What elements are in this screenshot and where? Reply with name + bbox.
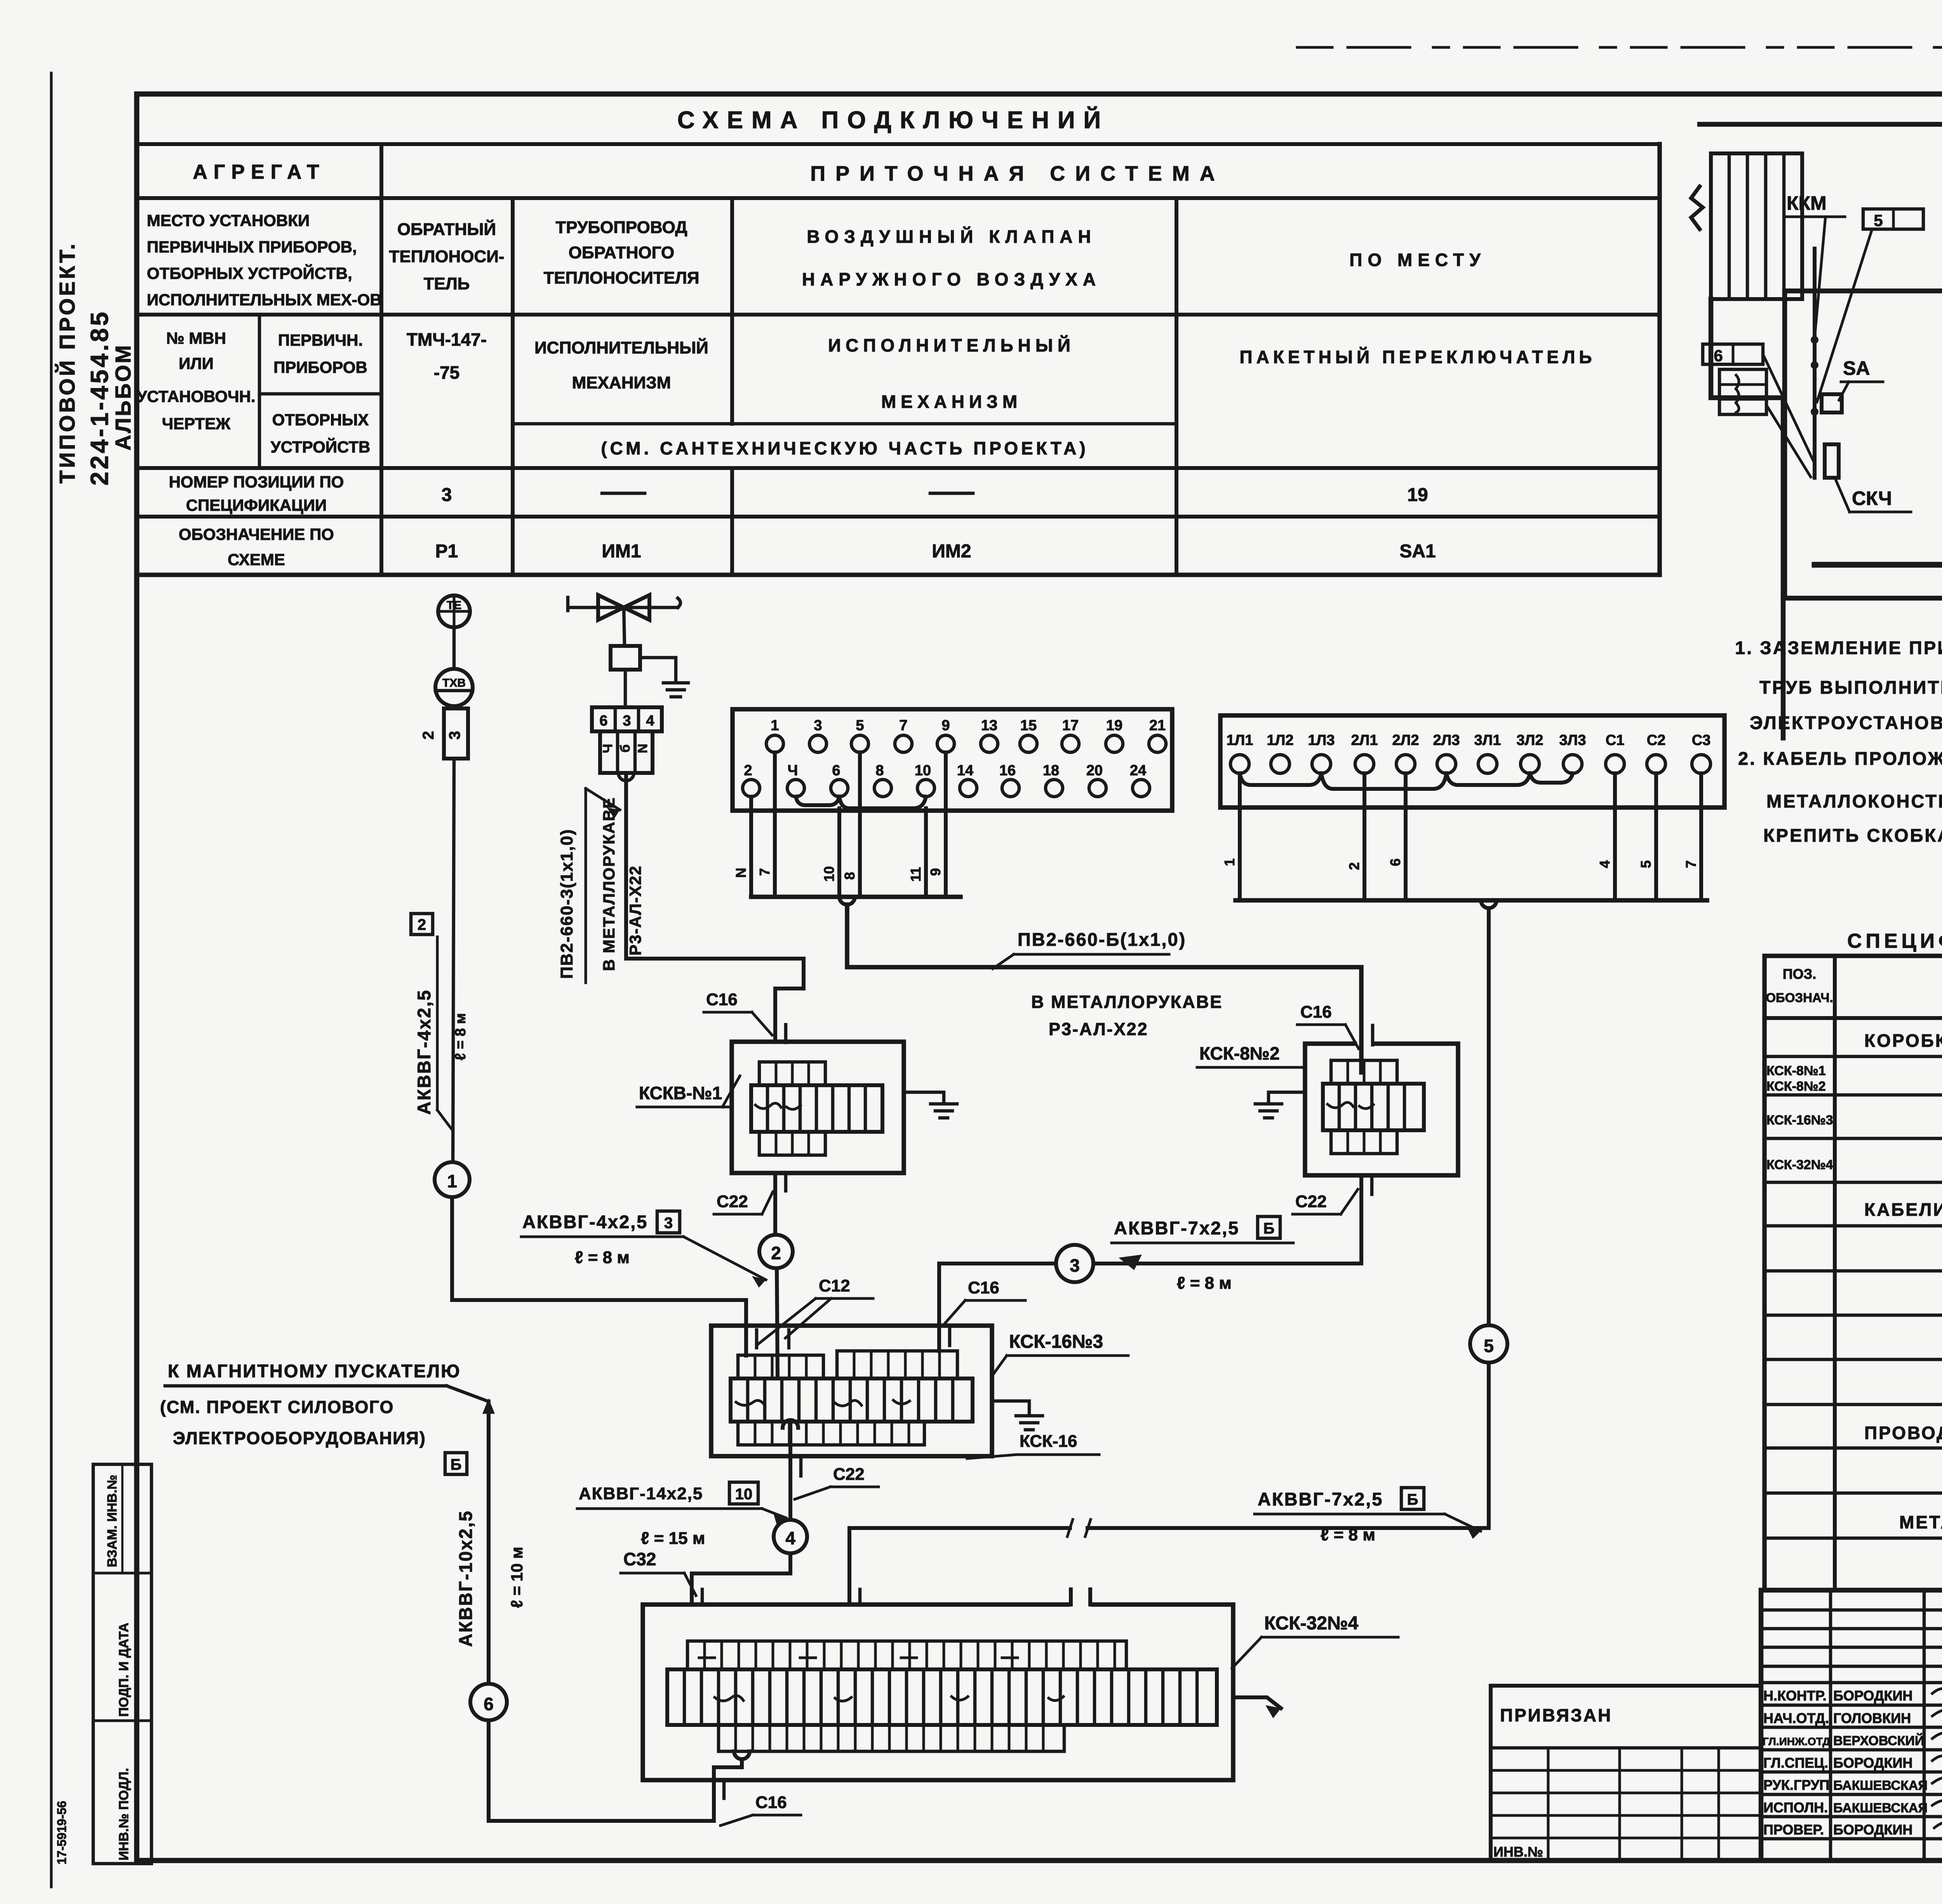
svg-text:№ МВН: № МВН <box>166 329 226 347</box>
svg-text:2: 2 <box>744 762 752 779</box>
КСКВ-№1 ground <box>904 1092 957 1118</box>
svg-text:ℓ = 8 м: ℓ = 8 м <box>1321 1525 1375 1544</box>
svg-text:АКВВГ-4х2,5: АКВВГ-4х2,5 <box>414 989 434 1115</box>
svg-text:2. КАБЕЛЬ ПРОЛОЖИТЬ ПО СТЕН: 2. КАБЕЛЬ ПРОЛОЖИТЬ ПО СТЕНАМ, ПОТОЛКУ, <box>1738 748 1942 769</box>
svg-text:1: 1 <box>1222 858 1237 866</box>
svg-text:БОРОДКИН: БОРОДКИН <box>1833 1755 1912 1771</box>
svg-text:3: 3 <box>442 485 452 505</box>
strip XT2 outgoing wires <box>1238 773 1242 900</box>
strip XT1 outgoing wires <box>749 797 753 897</box>
svg-text:18: 18 <box>1043 762 1059 779</box>
svg-text:ℓ = 8 м: ℓ = 8 м <box>452 1013 469 1060</box>
strip XT1 wire tags <box>733 866 943 882</box>
svg-text:3: 3 <box>814 717 822 734</box>
svg-text:СПЕЦИФИКАЦИИ: СПЕЦИФИКАЦИИ <box>186 496 327 514</box>
junction under XT2 <box>1481 900 1497 908</box>
wire node 4 to КСК-32 C32 <box>692 1553 790 1605</box>
svg-text:ПРИТОЧНАЯ СИСТЕМА: ПРИТОЧНАЯ СИСТЕМА <box>810 162 1225 185</box>
svg-text:3: 3 <box>1070 1255 1080 1276</box>
svg-text:В МЕТАЛЛОРУКАВЕ: В МЕТАЛЛОРУКАВЕ <box>600 797 618 971</box>
svg-text:ИМ2: ИМ2 <box>932 541 971 562</box>
svg-text:В МЕТАЛЛОРУКАВЕ: В МЕТАЛЛОРУКАВЕ <box>1031 992 1223 1012</box>
svg-text:С12: С12 <box>819 1276 850 1295</box>
plan wall below room to notes <box>1781 598 1786 738</box>
svg-text:8: 8 <box>842 872 858 880</box>
svg-text:МЕХАНИЗМ: МЕХАНИЗМ <box>881 392 1022 412</box>
svg-text:К МАГНИТНОМУ ПУСКАТЕЛЮ: К МАГНИТНОМУ ПУСКАТЕЛЮ <box>168 1361 461 1381</box>
svg-text:1: 1 <box>771 717 779 734</box>
flag 6 <box>1703 344 1763 364</box>
svg-text:2: 2 <box>420 731 437 740</box>
КСК-16№3 ground <box>992 1401 1042 1430</box>
junction box КСК-32№4 <box>643 1605 1233 1780</box>
svg-text:SA: SA <box>1843 357 1870 379</box>
node circle 2 <box>759 1235 793 1268</box>
wire node 3 to КСК-8 C22 <box>1093 1175 1361 1264</box>
svg-text:2Л1: 2Л1 <box>1351 732 1378 748</box>
svg-text:АКВВГ-14х2,5: АКВВГ-14х2,5 <box>579 1484 703 1503</box>
svg-text:С1: С1 <box>1606 732 1625 748</box>
svg-text:ИМ1: ИМ1 <box>602 541 641 562</box>
svg-text:Б: Б <box>1263 1220 1275 1237</box>
plan ground loop cable <box>1815 511 1942 565</box>
svg-text:15: 15 <box>1020 717 1037 734</box>
svg-text:(СМ. ПРОЕКТ СИЛОВОГО: (СМ. ПРОЕКТ СИЛОВОГО <box>160 1397 394 1417</box>
svg-text:2Л3: 2Л3 <box>1433 732 1460 748</box>
svg-text:ℓ = 8 м: ℓ = 8 м <box>575 1248 630 1267</box>
svg-text:С32: С32 <box>623 1549 656 1569</box>
svg-text:4: 4 <box>646 713 654 729</box>
svg-text:КОРОБКА СОЕДИНИТЕЛЬНАЯ ТУ36.: КОРОБКА СОЕДИНИТЕЛЬНАЯ ТУ36.1753-75 <box>1864 1030 1942 1051</box>
svg-text:SA1: SA1 <box>1399 541 1436 562</box>
terminal strip XT1 (24) <box>733 709 1172 811</box>
svg-text:N: N <box>635 744 650 754</box>
svg-text:РУК.ГРУП: РУК.ГРУП <box>1763 1777 1829 1793</box>
КСК-32№4 terminal block <box>667 1669 1217 1725</box>
svg-text:ККМ: ККМ <box>1787 192 1827 214</box>
svg-text:СХЕМЕ: СХЕМЕ <box>228 550 285 569</box>
svg-text:ВЗАМ. ИНВ.№: ВЗАМ. ИНВ.№ <box>105 1475 120 1567</box>
plan room left/bottom wall <box>1785 291 1942 598</box>
svg-text:КСКВ-№1: КСКВ-№1 <box>639 1083 722 1103</box>
wire valve terminal to КСКВ-№1 <box>626 773 804 1042</box>
title block: left narrow rows <box>1761 1608 1942 1612</box>
plan room top wall inner <box>1785 289 1942 294</box>
svg-text:ИНВ.№ ПОДЛ.: ИНВ.№ ПОДЛ. <box>117 1768 131 1860</box>
plan wall: left break zigzag <box>1691 186 1703 229</box>
svg-text:5: 5 <box>1874 211 1883 230</box>
flag 5 <box>1863 209 1923 229</box>
привязан block <box>1491 1686 1761 1860</box>
svg-text:ℓ = 15 м: ℓ = 15 м <box>641 1529 705 1548</box>
connection table grid <box>137 142 1660 146</box>
svg-text:N: N <box>733 868 749 878</box>
svg-text:-75: -75 <box>434 362 459 383</box>
svg-text:1. ЗАЗЕМЛЕНИЕ ПРИБОРОВ ЩИТА: 1. ЗАЗЕМЛЕНИЕ ПРИБОРОВ ЩИТА И МЕТАЛЛИЧЕС… <box>1735 637 1942 658</box>
svg-text:9: 9 <box>941 717 950 734</box>
svg-text:АКВВГ-4х2,5: АКВВГ-4х2,5 <box>522 1211 648 1232</box>
svg-text:24: 24 <box>1130 762 1146 779</box>
junction box КСК-16№3 <box>711 1326 992 1456</box>
svg-text:ОБОЗНАЧЕНИЕ ПО: ОБОЗНАЧЕНИЕ ПО <box>179 525 334 543</box>
junction box КСКВ-№1 <box>732 1042 904 1173</box>
top dash-dot trim line <box>1297 46 1942 49</box>
svg-text:7: 7 <box>1683 860 1699 868</box>
svg-text:6: 6 <box>1714 346 1723 365</box>
svg-text:6: 6 <box>599 713 607 729</box>
svg-text:21: 21 <box>1149 717 1166 734</box>
svg-text:С16: С16 <box>706 990 738 1009</box>
svg-text:ПРИВЯЗАН: ПРИВЯЗАН <box>1500 1705 1612 1725</box>
bus under XT1 <box>751 895 961 899</box>
bottom-left stamp column <box>93 1464 151 1864</box>
svg-text:3: 3 <box>664 1215 673 1232</box>
svg-text:9: 9 <box>927 868 943 876</box>
svg-text:ГОЛОВКИН: ГОЛОВКИН <box>1833 1710 1911 1726</box>
svg-text:5: 5 <box>856 717 864 734</box>
svg-text:Р1: Р1 <box>435 541 458 562</box>
svg-text:БОРОДКИН: БОРОДКИН <box>1833 1688 1912 1704</box>
svg-text:3Л1: 3Л1 <box>1474 732 1501 748</box>
svg-text:ТИПОВОЙ ПРОЕКТ.: ТИПОВОЙ ПРОЕКТ. <box>55 242 79 484</box>
КСК-8№2 ground <box>1255 1092 1305 1118</box>
spec table grid <box>1765 956 1942 1590</box>
svg-text:ОБРАТНОГО: ОБРАТНОГО <box>569 243 674 262</box>
sensor body <box>444 708 468 759</box>
КСК-32№4 bottom connector and C16 exit <box>734 1751 750 1759</box>
svg-text:19: 19 <box>1106 717 1122 734</box>
svg-text:С2: С2 <box>1647 732 1666 748</box>
svg-text:ТЕПЛОНОСИ-: ТЕПЛОНОСИ- <box>389 247 505 266</box>
svg-text:1Л2: 1Л2 <box>1267 732 1294 748</box>
cable entry stubs <box>702 1025 1372 1798</box>
svg-text:ОБРАТНЫЙ: ОБРАТНЫЙ <box>397 219 496 239</box>
svg-text:7: 7 <box>757 868 773 876</box>
svg-text:ИСПОЛНИТЕЛЬНЫЙ: ИСПОЛНИТЕЛЬНЫЙ <box>828 335 1075 355</box>
svg-text:ИСПОЛНИТЕЛЬНЫХ МЕХ-ОВ: ИСПОЛНИТЕЛЬНЫХ МЕХ-ОВ <box>147 291 382 309</box>
svg-text:БАКШЕВСКАЯ: БАКШЕВСКАЯ <box>1833 1801 1928 1815</box>
svg-text:1Л3: 1Л3 <box>1308 732 1335 748</box>
svg-text:ИЛИ: ИЛИ <box>179 354 214 372</box>
svg-text:ℓ = 10 м: ℓ = 10 м <box>508 1547 526 1608</box>
svg-text:ИСПОЛНИТЕЛЬНЫЙ: ИСПОЛНИТЕЛЬНЫЙ <box>534 338 708 357</box>
svg-text:ТМЧ-147-: ТМЧ-147- <box>407 329 487 350</box>
svg-text:БОРОДКИН: БОРОДКИН <box>1833 1822 1912 1838</box>
svg-text:ℓ = 8 м: ℓ = 8 м <box>1177 1274 1232 1293</box>
svg-text:Б: Б <box>1407 1491 1418 1508</box>
valve terminal row 2 <box>600 731 653 773</box>
svg-text:10: 10 <box>915 762 931 779</box>
svg-text:С22: С22 <box>1295 1192 1327 1211</box>
signatures squiggles <box>1932 1689 1942 1830</box>
svg-text:ИСПОЛН.: ИСПОЛН. <box>1763 1800 1828 1815</box>
svg-text:СХЕМА ПОДКЛЮЧЕНИЙ: СХЕМА ПОДКЛЮЧЕНИЙ <box>677 106 1109 134</box>
svg-text:2: 2 <box>1346 862 1362 870</box>
svg-text:ГЛ.ИНЖ.ОТД: ГЛ.ИНЖ.ОТД <box>1763 1735 1830 1747</box>
svg-text:ПАКЕТНЫЙ ПЕРЕКЛЮЧАТЕЛЬ: ПАКЕТНЫЙ ПЕРЕКЛЮЧАТЕЛЬ <box>1240 347 1596 367</box>
svg-text:КАБЕЛИ ГОСТ 1508-78*Е: КАБЕЛИ ГОСТ 1508-78*Е <box>1864 1199 1942 1220</box>
svg-text:Б: Б <box>451 1456 462 1473</box>
svg-text:2Л2: 2Л2 <box>1392 732 1419 748</box>
svg-text:17: 17 <box>1062 717 1079 734</box>
svg-text:Р3-АЛ-Х22: Р3-АЛ-Х22 <box>1049 1019 1148 1039</box>
svg-text:АКВВГ-7х2,5: АКВВГ-7х2,5 <box>1114 1218 1239 1238</box>
svg-text:Ч: Ч <box>788 762 798 779</box>
svg-text:ВОЗДУШНЫЙ КЛАПАН: ВОЗДУШНЫЙ КЛАПАН <box>807 226 1096 247</box>
sensor ТХВ <box>435 669 473 706</box>
svg-text:МЕТАЛЛОКОНСТРУКЦИЯМ.: МЕТАЛЛОКОНСТРУКЦИЯМ. <box>1766 791 1942 811</box>
cable flag 2 <box>411 914 433 935</box>
svg-text:ПЕРВИЧН.: ПЕРВИЧН. <box>278 331 363 349</box>
valve terminal bottom connector <box>618 773 634 781</box>
svg-text:3Л2: 3Л2 <box>1517 732 1544 748</box>
svg-text:ТРУБОПРОВОД: ТРУБОПРОВОД <box>555 218 687 237</box>
svg-text:4: 4 <box>785 1528 795 1548</box>
wire solenoid to terminal <box>624 670 627 707</box>
svg-text:8: 8 <box>875 762 884 779</box>
wire node5 vertical <box>1487 908 1491 1325</box>
svg-text:МЕТАЛЛОРУКАВ Р3-АЛ-Х22: МЕТАЛЛОРУКАВ Р3-АЛ-Х22 <box>1899 1512 1942 1532</box>
sensor TE <box>438 595 470 627</box>
wire node1 to КСК-16 <box>452 1197 746 1356</box>
svg-text:ПЕРВИЧНЫХ ПРИБОРОВ,: ПЕРВИЧНЫХ ПРИБОРОВ, <box>147 238 357 256</box>
svg-text:10: 10 <box>821 866 837 882</box>
svg-text:С16: С16 <box>1300 1002 1332 1022</box>
КСКВ-№1 terminal block <box>751 1085 882 1132</box>
svg-text:ОТБОРНЫХ УСТРОЙСТВ,: ОТБОРНЫХ УСТРОЙСТВ, <box>147 264 352 282</box>
node circle 4 <box>774 1520 807 1553</box>
plan cable riser <box>1813 249 1817 478</box>
svg-text:УСТРОЙСТВ: УСТРОЙСТВ <box>271 437 371 456</box>
svg-text:224-1-454.85: 224-1-454.85 <box>85 310 113 486</box>
cable flag Б on starter wire <box>445 1453 467 1474</box>
sheet outer left border <box>50 73 53 1887</box>
КСК-32№4 ground arrow <box>1233 1697 1281 1708</box>
svg-text:КСК-16: КСК-16 <box>1020 1432 1077 1451</box>
svg-text:КРЕПИТЬ СКОБКАМИ.: КРЕПИТЬ СКОБКАМИ. <box>1763 825 1942 846</box>
КСК-16№3 C22 wire to node 4 <box>788 1422 792 1520</box>
junction box КСК-8№2 <box>1305 1044 1458 1175</box>
strip XT2 wire tags <box>1222 858 1699 870</box>
svg-text:ЭЛЕКТРОУСТАНОВОК (ПУЭ) К КОНТУ: ЭЛЕКТРОУСТАНОВОК (ПУЭ) К КОНТУРУ ЗАЗЕМЛЕ… <box>1750 712 1942 733</box>
bus under XT2 <box>1236 898 1707 903</box>
svg-text:НАРУЖНОГО ВОЗДУХА: НАРУЖНОГО ВОЗДУХА <box>802 269 1101 289</box>
svg-text:ПВ2-660-3(1х1,0): ПВ2-660-3(1х1,0) <box>557 829 576 979</box>
svg-text:Ч: Ч <box>600 744 615 753</box>
switch SA box <box>1822 394 1842 412</box>
svg-text:КСК-8№2: КСК-8№2 <box>1766 1079 1826 1094</box>
svg-text:СПЕЦИФИКАЦИЯ МОНТАЖНЫХ ИЗДЕЛ: СПЕЦИФИКАЦИЯ МОНТАЖНЫХ ИЗДЕЛИЙ <box>1847 929 1942 952</box>
junction under XT1 <box>839 897 855 905</box>
valve terminal row 1 <box>592 707 662 731</box>
КСКВ-№1 C22 wire to node 2 <box>773 1173 777 1235</box>
svg-text:ТЕПЛОНОСИТЕЛЯ: ТЕПЛОНОСИТЕЛЯ <box>543 268 699 287</box>
svg-text:3: 3 <box>446 731 463 740</box>
svg-text:ПРОВОД МЕДНЫЙ ГОСТ 6329-: ПРОВОД МЕДНЫЙ ГОСТ 6329-79* <box>1864 1423 1942 1443</box>
svg-text:ПО МЕСТУ: ПО МЕСТУ <box>1349 250 1486 270</box>
title block outer <box>1761 1590 1942 1860</box>
plan wall: top outer <box>1700 124 1942 289</box>
wire junction to КСК-8 C16 <box>847 905 1361 1072</box>
svg-text:КСК-8№2: КСК-8№2 <box>1199 1043 1280 1063</box>
svg-text:16: 16 <box>999 762 1016 779</box>
svg-text:С16: С16 <box>968 1278 999 1297</box>
svg-text:МЕСТО УСТАНОВКИ: МЕСТО УСТАНОВКИ <box>147 211 310 230</box>
wire sensor down to node 1 <box>453 759 454 1162</box>
svg-text:11: 11 <box>908 867 924 882</box>
svg-text:10: 10 <box>735 1486 753 1503</box>
plan stairs <box>1711 153 1802 299</box>
svg-text:Р3-АЛ-Х22: Р3-АЛ-Х22 <box>626 865 644 955</box>
svg-text:БАКШЕВСКАЯ: БАКШЕВСКАЯ <box>1833 1778 1928 1793</box>
svg-text:ЧЕРТЕЖ: ЧЕРТЕЖ <box>162 414 231 433</box>
svg-text:5: 5 <box>1638 860 1654 868</box>
svg-text:7: 7 <box>899 717 907 734</box>
steam valve <box>568 606 678 609</box>
svg-text:ТРУБ ВЫПОЛНИТЬ СОГЛАСНО ПРА: ТРУБ ВЫПОЛНИТЬ СОГЛАСНО ПРАВИЛ УСТРОЙСТВ… <box>1759 677 1942 698</box>
svg-text:17-5919-56: 17-5919-56 <box>55 1801 69 1864</box>
svg-text:ОТБОРНЫХ: ОТБОРНЫХ <box>272 411 369 429</box>
sensor СКЧ box <box>1825 444 1839 478</box>
svg-text:6: 6 <box>832 762 840 779</box>
plan wall: left lower <box>1711 299 1783 598</box>
КСК-16№3 terminal block <box>731 1378 973 1422</box>
svg-text:3: 3 <box>623 713 631 729</box>
valve actuator solenoid <box>624 607 625 646</box>
svg-text:б: б <box>618 744 633 752</box>
svg-text:ВЕРХОВСКИЙ: ВЕРХОВСКИЙ <box>1833 1733 1924 1748</box>
wire to starter with node 6 <box>487 1401 491 1684</box>
svg-text:3Л3: 3Л3 <box>1559 732 1586 748</box>
svg-text:КСК-8№1: КСК-8№1 <box>1766 1063 1826 1078</box>
svg-text:ТЕ: ТЕ <box>447 599 461 612</box>
node circle 3 <box>1056 1245 1093 1282</box>
svg-text:НАЧ.ОТД.: НАЧ.ОТД. <box>1763 1710 1829 1726</box>
svg-text:АКВВГ-7х2,5: АКВВГ-7х2,5 <box>1258 1489 1383 1509</box>
svg-text:С22: С22 <box>717 1192 748 1211</box>
svg-text:С22: С22 <box>833 1465 865 1484</box>
КСК-16№3 C16 wire up to link 3 <box>939 1264 1055 1351</box>
svg-text:ПОДП. И ДАТА: ПОДП. И ДАТА <box>117 1623 131 1717</box>
svg-text:ПОЗ.: ПОЗ. <box>1783 966 1816 982</box>
svg-text:ОБОЗНАЧ.: ОБОЗНАЧ. <box>1766 990 1833 1005</box>
svg-text:НОМЕР ПОЗИЦИИ ПО: НОМЕР ПОЗИЦИИ ПО <box>169 473 344 491</box>
svg-text:Н.КОНТР.: Н.КОНТР. <box>1763 1688 1827 1704</box>
svg-text:ПВ2-660-Б(1х1,0): ПВ2-660-Б(1х1,0) <box>1018 929 1186 950</box>
wire TE to TXB <box>452 627 456 669</box>
svg-text:5: 5 <box>1484 1336 1494 1356</box>
ground at solenoid <box>640 658 688 697</box>
svg-text:1: 1 <box>447 1171 457 1191</box>
svg-text:4: 4 <box>1597 860 1613 868</box>
svg-text:СКЧ: СКЧ <box>1852 487 1892 509</box>
svg-text:14: 14 <box>957 762 973 779</box>
svg-text:УСТАНОВОЧН.: УСТАНОВОЧН. <box>137 387 255 406</box>
strip XT1 jumpers <box>796 797 839 805</box>
wire node5 to КСК-32 C22 <box>849 1363 1489 1605</box>
svg-text:КСК-16№3: КСК-16№3 <box>1766 1113 1833 1128</box>
signature rows <box>1761 1704 1942 1707</box>
svg-text:ПРИБОРОВ: ПРИБОРОВ <box>273 358 367 376</box>
svg-text:ТХВ: ТХВ <box>442 677 466 689</box>
svg-text:20: 20 <box>1086 762 1103 779</box>
svg-text:С16: С16 <box>755 1793 787 1812</box>
svg-text:2: 2 <box>418 916 426 933</box>
svg-text:ИНВ.№: ИНВ.№ <box>1493 1844 1543 1860</box>
svg-text:1Л1: 1Л1 <box>1227 732 1253 748</box>
svg-text:ПРОВЕР.: ПРОВЕР. <box>1763 1822 1824 1838</box>
svg-text:ЭЛЕКТРООБОРУДОВАНИЯ): ЭЛЕКТРООБОРУДОВАНИЯ) <box>173 1428 426 1448</box>
svg-text:(СМ. САНТЕХНИЧЕСКУЮ ЧАСТЬ ПР: (СМ. САНТЕХНИЧЕСКУЮ ЧАСТЬ ПРОЕКТА) <box>601 438 1088 458</box>
node circle 5 <box>1470 1325 1507 1363</box>
svg-text:КСК-32№4: КСК-32№4 <box>1264 1613 1359 1634</box>
КСК-8№2 terminal block <box>1323 1084 1424 1130</box>
svg-text:АЛЬБОМ: АЛЬБОМ <box>111 344 135 451</box>
strip XT2 jumpers <box>1240 773 1321 785</box>
svg-text:АГРЕГАТ: АГРЕГАТ <box>193 161 325 183</box>
svg-text:КСК-16№3: КСК-16№3 <box>1009 1331 1103 1352</box>
wire node 2 to КСК-16 <box>777 1268 778 1375</box>
svg-text:6: 6 <box>1387 858 1403 866</box>
plan small table <box>1719 369 1766 414</box>
svg-text:19: 19 <box>1407 485 1428 505</box>
svg-text:13: 13 <box>981 717 997 734</box>
svg-text:ТЕЛЬ: ТЕЛЬ <box>424 274 470 293</box>
svg-text:С3: С3 <box>1692 732 1711 748</box>
svg-text:6: 6 <box>484 1694 494 1714</box>
svg-text:КСК-32№4: КСК-32№4 <box>1766 1157 1833 1172</box>
svg-text:АКВВГ-10х2,5: АКВВГ-10х2,5 <box>455 1510 476 1647</box>
node circle 1 <box>435 1162 470 1197</box>
svg-text:2: 2 <box>771 1243 781 1263</box>
svg-text:ГЛ.СПЕЦ.: ГЛ.СПЕЦ. <box>1763 1755 1828 1771</box>
svg-text:МЕХАНИЗМ: МЕХАНИЗМ <box>572 373 671 392</box>
terminal strip XT2 (12) <box>1220 715 1724 808</box>
